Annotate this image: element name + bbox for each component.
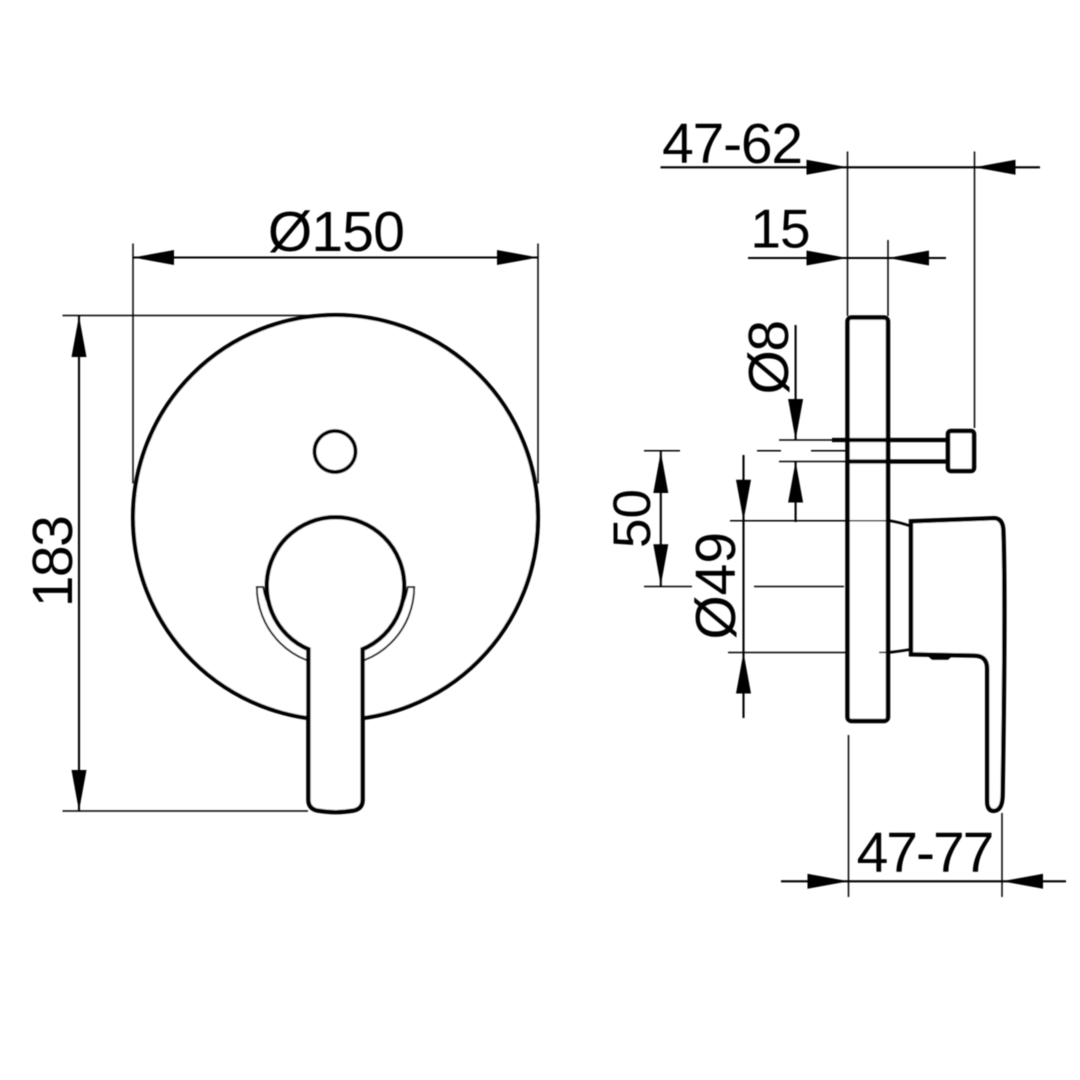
side view: plate-to-hub connector bottom: [889, 649, 911, 652]
dim 47-77 dimension line: [781, 880, 1066, 882]
front view: C-ring band around handle hub: [257, 587, 414, 666]
dim 47-77 arrowhead left: [808, 874, 849, 889]
dim Ø49 extension line top: [730, 520, 888, 522]
dim 47-62 extension line left (wall plane): [847, 152, 849, 317]
dim 50 arrowhead down: [653, 544, 668, 585]
dim 47-77 extension line right: [1001, 813, 1003, 897]
front view: diverter button: [315, 431, 356, 472]
dim 15 dimension line: [748, 257, 946, 259]
dim 15 extension line right: [887, 240, 889, 316]
dim Ø8 dimension line: [795, 325, 797, 522]
dim 183 extension line top: [63, 315, 339, 317]
side view: spindle knob: [948, 431, 974, 471]
dim Ø49 dimension line: [742, 455, 744, 718]
dim Ø150 dimension line: [133, 256, 538, 258]
svg-text:Ø49: Ø49: [684, 532, 748, 640]
svg-text:47-62: 47-62: [662, 112, 802, 176]
front view: handle lever stem: [308, 648, 362, 812]
svg-text:50: 50: [603, 489, 662, 548]
dim 50 arrowhead up: [653, 452, 668, 493]
dim 47-77 arrowhead right: [1002, 874, 1043, 889]
dim Ø150 arrowhead left: [133, 250, 174, 265]
side view: plate-to-hub connector top: [889, 521, 911, 527]
front view: handle hub circle: [267, 517, 405, 655]
dim Ø150 arrowhead right: [497, 250, 538, 265]
front view: cover plate circle (Ø150): [133, 315, 538, 720]
dim 183 dimension line: [78, 316, 80, 811]
dim 47-77 extension line left: [848, 735, 850, 897]
side view: handle hub and lever outline: [911, 518, 1004, 811]
dim Ø8 extension lines (shaft edges extended left): [779, 440, 846, 462]
dim 15 arrowhead right: [888, 251, 929, 266]
side view: wall plate: [848, 318, 889, 722]
dim 50 extension line (spindle axis): [644, 450, 846, 452]
dim Ø49 arrowhead top: [736, 480, 751, 521]
side view: diverter spindle shaft: [832, 440, 946, 462]
dim 47-62 dimension line: [661, 166, 1041, 168]
side view: set screw notch on hub underside: [927, 656, 953, 660]
dim 47-62 arrowhead right: [975, 160, 1016, 175]
dim 50 hub-axis extension line: [644, 586, 844, 588]
dim 183 arrowhead bottom: [72, 770, 87, 811]
dim 183 arrowhead top: [72, 316, 87, 357]
dim Ø8 arrowhead up: [788, 462, 803, 503]
svg-text:Ø8: Ø8: [737, 321, 801, 394]
dim 47-62 arrowhead left: [807, 160, 848, 175]
dim Ø49 arrowhead bottom: [736, 653, 751, 694]
dim 47-62 extension line right (knob face): [974, 152, 976, 429]
svg-text:183: 183: [21, 517, 85, 608]
dim Ø49 extension line bottom: [728, 651, 889, 653]
dim 15 arrowhead left: [807, 251, 848, 266]
dim Ø8 arrowhead down: [788, 399, 803, 440]
svg-text:15: 15: [750, 198, 809, 260]
svg-text:47-77: 47-77: [857, 821, 993, 885]
svg-text:Ø150: Ø150: [268, 200, 404, 264]
dim Ø150 extension lines: [133, 244, 538, 484]
dim 183 extension line bottom: [63, 810, 309, 812]
dim 50 dimension line: [660, 451, 662, 587]
